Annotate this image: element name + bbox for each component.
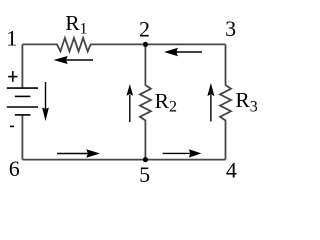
svg-text:3: 3 [225, 16, 236, 41]
svg-text:5: 5 [139, 162, 150, 187]
svg-text:R2: R2 [155, 89, 177, 116]
svg-text:6: 6 [9, 156, 20, 181]
svg-text:1: 1 [6, 25, 17, 50]
svg-text:R3: R3 [235, 88, 257, 116]
svg-text:4: 4 [226, 157, 237, 182]
svg-text:2: 2 [139, 17, 150, 42]
svg-text:R1: R1 [65, 11, 87, 37]
